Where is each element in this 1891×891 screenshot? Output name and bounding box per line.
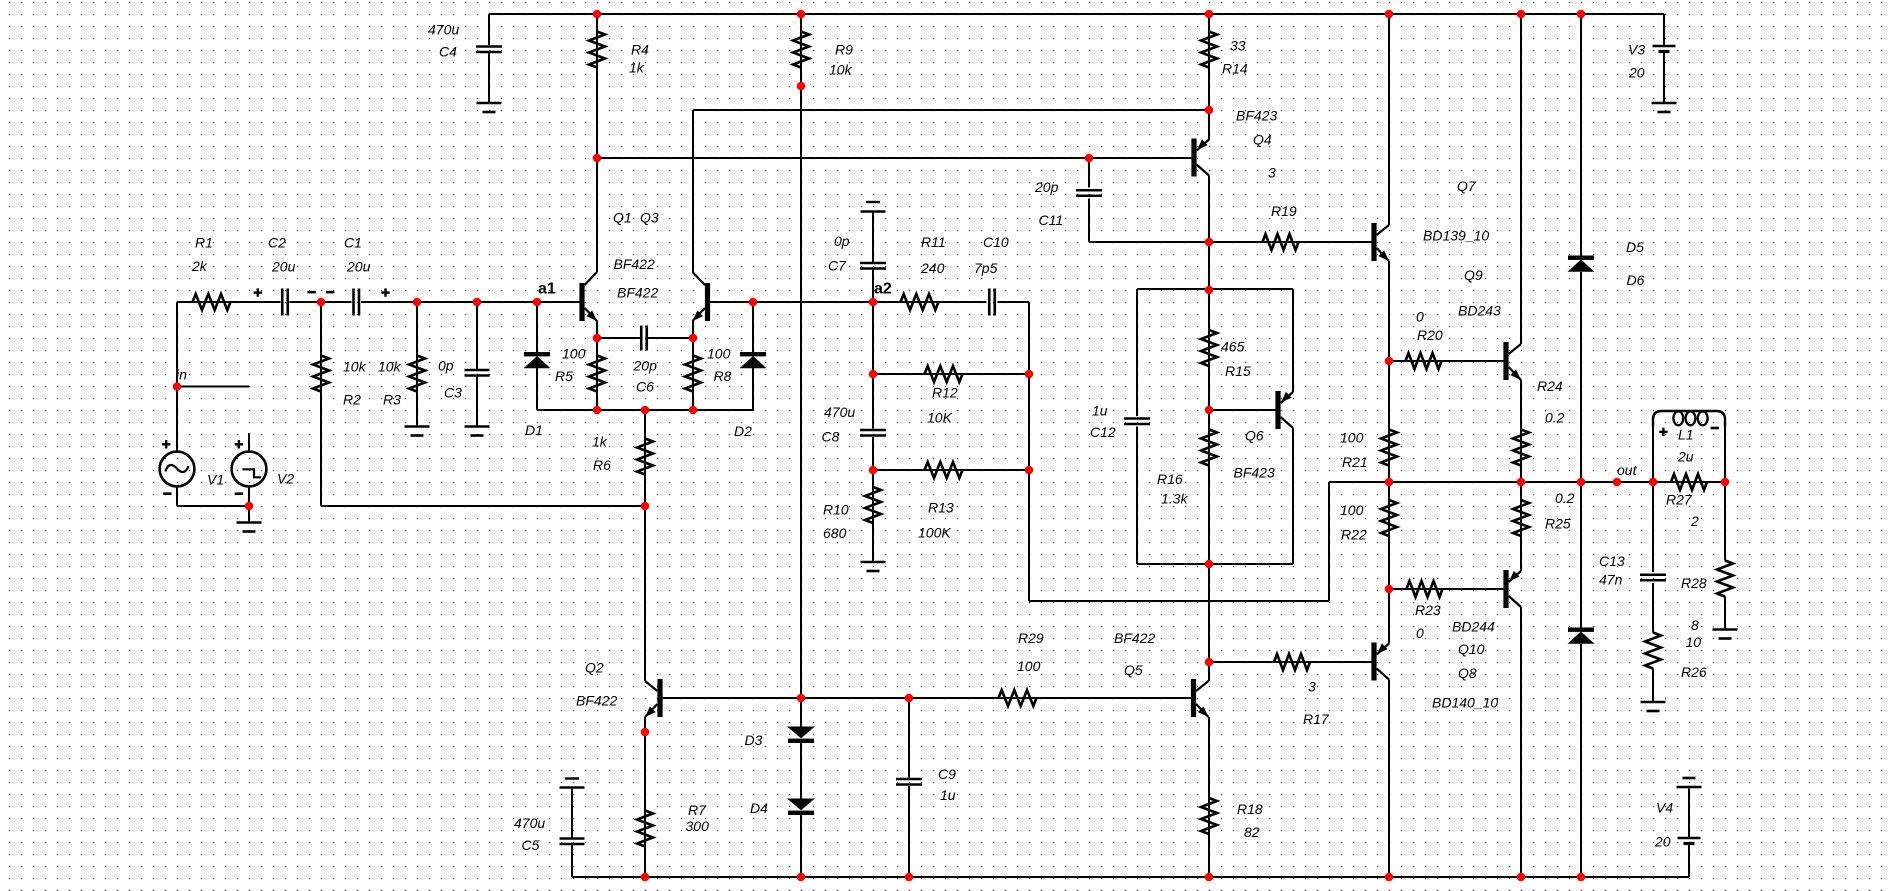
svg-text:Q8: Q8: [1458, 665, 1477, 681]
svg-text:1k: 1k: [629, 60, 645, 76]
svg-text:R25: R25: [1545, 516, 1571, 532]
svg-text:Q1: Q1: [613, 210, 632, 226]
svg-text:R10: R10: [823, 502, 849, 518]
svg-text:V3: V3: [1628, 42, 1645, 58]
svg-text:240: 240: [920, 260, 945, 276]
svg-text:V1: V1: [207, 472, 224, 488]
svg-text:BF423: BF423: [1234, 465, 1275, 481]
svg-text:Q5: Q5: [1124, 662, 1143, 678]
svg-text:C11: C11: [1039, 212, 1064, 228]
svg-text:R28: R28: [1681, 575, 1707, 591]
svg-text:20: 20: [1654, 834, 1671, 850]
svg-text:C5: C5: [522, 837, 540, 853]
svg-text:D3: D3: [745, 732, 763, 748]
svg-text:C2: C2: [268, 235, 286, 251]
svg-text:C1: C1: [344, 235, 362, 251]
svg-text:R12: R12: [932, 385, 958, 401]
svg-text:20p: 20p: [1034, 179, 1059, 195]
svg-text:1.3k: 1.3k: [1161, 491, 1188, 507]
svg-text:0.2: 0.2: [1555, 490, 1575, 506]
svg-text:470u: 470u: [824, 404, 855, 420]
svg-text:47n: 47n: [1599, 572, 1623, 588]
svg-text:20: 20: [1628, 65, 1645, 81]
svg-text:C7: C7: [828, 258, 847, 274]
svg-text:L1: L1: [1678, 427, 1694, 443]
svg-text:C13: C13: [1599, 553, 1625, 569]
svg-text:R21: R21: [1342, 454, 1368, 470]
svg-text:2u: 2u: [1677, 449, 1694, 465]
svg-text:Q7: Q7: [1457, 178, 1477, 194]
svg-text:0p: 0p: [438, 358, 454, 374]
svg-text:1u: 1u: [940, 787, 956, 803]
svg-text:20u: 20u: [271, 259, 296, 275]
svg-text:R29: R29: [1018, 630, 1044, 646]
svg-text:C10: C10: [983, 234, 1009, 250]
svg-text:8: 8: [1691, 617, 1699, 633]
svg-text:R4: R4: [631, 42, 649, 58]
svg-text:R23: R23: [1415, 602, 1441, 618]
svg-text:BF422: BF422: [614, 256, 655, 272]
svg-text:BF422: BF422: [1114, 630, 1155, 646]
svg-text:R24: R24: [1537, 378, 1563, 394]
svg-text:2k: 2k: [191, 258, 208, 274]
svg-text:BD139_10: BD139_10: [1423, 228, 1489, 244]
svg-text:Q2: Q2: [585, 660, 604, 676]
svg-text:100: 100: [1340, 502, 1364, 518]
svg-text:R6: R6: [593, 457, 611, 473]
svg-text:R11: R11: [921, 234, 946, 250]
svg-text:V4: V4: [1656, 800, 1673, 816]
svg-text:a2: a2: [874, 281, 892, 298]
svg-text:Q9: Q9: [1464, 267, 1483, 283]
svg-text:0.2: 0.2: [1545, 410, 1565, 426]
svg-text:BF422: BF422: [617, 285, 658, 301]
svg-text:R14: R14: [1222, 61, 1248, 77]
svg-text:1u: 1u: [1092, 403, 1108, 419]
svg-text:Q3: Q3: [640, 210, 659, 226]
svg-text:C8: C8: [822, 429, 840, 445]
svg-text:BF423: BF423: [1236, 108, 1277, 124]
svg-text:100: 100: [707, 346, 731, 362]
svg-text:10k: 10k: [343, 359, 367, 375]
svg-text:680: 680: [823, 525, 847, 541]
svg-text:100: 100: [562, 346, 586, 362]
svg-text:100: 100: [1017, 658, 1041, 674]
svg-text:R5: R5: [555, 368, 573, 384]
svg-text:out: out: [1617, 462, 1638, 478]
svg-text:R3: R3: [383, 392, 401, 408]
svg-text:R13: R13: [928, 500, 954, 516]
svg-text:R17: R17: [1303, 711, 1330, 727]
svg-text:R18: R18: [1237, 801, 1263, 817]
svg-text:Q10: Q10: [1458, 641, 1485, 657]
svg-text:20p: 20p: [633, 358, 658, 374]
svg-text:C3: C3: [444, 385, 462, 401]
svg-text:a1: a1: [538, 281, 556, 298]
svg-text:Q6: Q6: [1245, 428, 1264, 444]
svg-text:3: 3: [1308, 679, 1316, 695]
svg-text:in: in: [176, 367, 187, 383]
svg-text:BD244: BD244: [1452, 619, 1495, 635]
svg-text:D2: D2: [734, 423, 752, 439]
svg-text:300: 300: [686, 818, 710, 834]
svg-text:10K: 10K: [927, 410, 953, 426]
svg-text:R20: R20: [1417, 327, 1443, 343]
svg-text:100: 100: [1340, 430, 1364, 446]
svg-text:C6: C6: [636, 379, 654, 395]
svg-text:2: 2: [1690, 513, 1699, 529]
svg-text:0: 0: [1416, 309, 1424, 325]
svg-text:V2: V2: [277, 471, 294, 487]
svg-text:D6: D6: [1627, 272, 1645, 288]
svg-text:R22: R22: [1341, 527, 1367, 543]
svg-text:R9: R9: [835, 42, 853, 58]
svg-text:10k: 10k: [829, 62, 853, 78]
svg-text:R15: R15: [1225, 363, 1251, 379]
svg-text:BF422: BF422: [576, 693, 617, 709]
svg-text:7p5: 7p5: [974, 260, 998, 276]
svg-text:D4: D4: [750, 800, 768, 816]
svg-text:3: 3: [1268, 165, 1276, 181]
svg-text:100K: 100K: [918, 525, 951, 541]
svg-text:C12: C12: [1090, 424, 1116, 440]
svg-text:BD140_10: BD140_10: [1432, 695, 1498, 711]
svg-text:0p: 0p: [834, 233, 850, 249]
svg-text:D5: D5: [1626, 239, 1644, 255]
svg-text:1k: 1k: [592, 434, 608, 450]
svg-text:470u: 470u: [428, 22, 459, 38]
svg-text:R19: R19: [1271, 203, 1297, 219]
svg-text:R1: R1: [195, 235, 213, 251]
svg-text:20u: 20u: [346, 259, 371, 275]
svg-text:Q4: Q4: [1253, 132, 1272, 148]
svg-text:10: 10: [1686, 634, 1702, 650]
svg-text:0: 0: [1416, 625, 1424, 641]
svg-text:R16: R16: [1157, 471, 1183, 487]
svg-text:465: 465: [1221, 339, 1245, 355]
svg-text:BD243: BD243: [1458, 303, 1501, 319]
svg-text:C4: C4: [439, 44, 457, 60]
svg-text:82: 82: [1244, 824, 1260, 840]
svg-text:R27: R27: [1666, 492, 1693, 508]
svg-text:R2: R2: [343, 392, 361, 408]
svg-text:R8: R8: [714, 368, 732, 384]
svg-text:R7: R7: [688, 802, 707, 818]
svg-text:10k: 10k: [378, 359, 402, 375]
svg-text:470u: 470u: [514, 815, 545, 831]
svg-text:D1: D1: [525, 422, 543, 438]
svg-text:33: 33: [1230, 38, 1246, 54]
svg-text:R26: R26: [1681, 664, 1707, 680]
svg-text:C9: C9: [938, 766, 956, 782]
